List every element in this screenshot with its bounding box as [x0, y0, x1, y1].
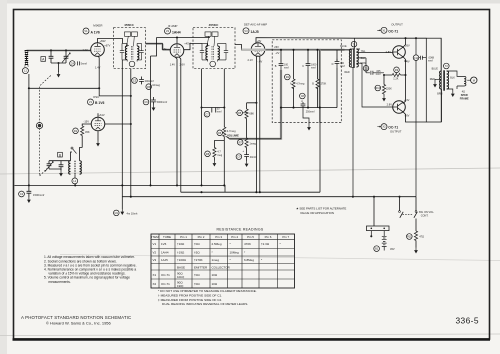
wire V3 plate to driver	[265, 49, 351, 51]
AVC line through box	[265, 49, 351, 51]
osc padder capacitor	[59, 161, 64, 170]
wire IFT2 to V3	[235, 45, 251, 50]
branch wires	[229, 50, 337, 139]
svg-text:10Ω: 10Ω	[212, 273, 218, 277]
wire osc injection	[29, 87, 99, 89]
svg-text:V3: V3	[244, 29, 248, 33]
svg-text:2.8V: 2.8V	[386, 50, 392, 54]
svg-text:1V6: 1V6	[161, 242, 167, 246]
wire osc to coil	[71, 148, 83, 161]
osc voltage labels	[84, 113, 105, 124]
bypass capacitor 200mmf	[132, 78, 138, 84]
svg-text:D: D	[332, 63, 334, 66]
svg-text:+.4V: +.4V	[404, 98, 410, 102]
wire osc plate to feedback line	[105, 123, 131, 125]
battery cells 45V	[382, 236, 387, 250]
svg-text:X1: X1	[153, 273, 157, 277]
svg-text:455KC: 455KC	[209, 23, 219, 27]
IF amp tube V2	[170, 44, 184, 58]
wire V2 plate to IFT2	[184, 44, 202, 50]
tube designator V1B	[88, 99, 94, 105]
svg-text:V1: V1	[84, 29, 88, 33]
svg-text:5000mmf: 5000mmf	[157, 101, 168, 104]
svg-text:26V: 26V	[274, 45, 279, 49]
resistor R6 4.7meg volume tap	[217, 130, 223, 136]
electrolytic C2 1500mmf	[19, 191, 25, 197]
shaded signal wire grid line	[27, 44, 171, 51]
B+ screen line	[151, 38, 211, 57]
svg-text:DET-AVC-AF AMP: DET-AVC-AF AMP	[244, 23, 267, 27]
svg-text:CONT.: CONT.	[421, 215, 429, 218]
meter jack M1	[114, 210, 120, 216]
svg-text:†19Ω: †19Ω	[177, 250, 185, 254]
svg-text:GRN: GRN	[360, 62, 366, 65]
GRN wire to X2 base	[362, 63, 393, 107]
svg-text:COLLECTOR: COLLECTOR	[212, 265, 231, 269]
svg-text:EMITTER: EMITTER	[194, 265, 208, 269]
svg-text:A PHOTOFACT STANDARD NOTATI: A PHOTOFACT STANDARD NOTATION SCHEMATIC	[21, 315, 131, 320]
svg-text:1meg: 1meg	[249, 142, 256, 146]
svg-text:5mmf: 5mmf	[81, 63, 88, 66]
svg-text:BRN: BRN	[437, 92, 442, 95]
svg-text:1AH4: 1AH4	[172, 30, 181, 34]
table row X1 OC-71	[153, 271, 218, 279]
svg-text:FRAME: FRAME	[460, 97, 469, 100]
wire box to rail	[319, 108, 321, 193]
svg-text:1meg: 1meg	[212, 258, 220, 262]
svg-text:68K: 68K	[249, 112, 254, 116]
battery feed	[373, 197, 375, 226]
svg-text:-2V: -2V	[275, 51, 279, 55]
table row V2 1AH4	[153, 250, 247, 254]
capacitor C7 50mmf	[204, 111, 210, 117]
X2 voltage labels	[387, 98, 410, 117]
table footnotes	[158, 289, 257, 306]
junction dots	[50, 49, 67, 64]
wire tuning caps	[49, 161, 71, 171]
filament wire V2 b	[179, 57, 181, 192]
osc transformer L2	[69, 161, 71, 175]
svg-text:1AJ5: 1AJ5	[161, 258, 168, 262]
svg-text:OC-71: OC-71	[161, 282, 170, 286]
table header row	[151, 235, 289, 239]
svg-text:V1: V1	[89, 100, 93, 104]
battery pack B1	[367, 226, 390, 231]
transistor X2	[393, 101, 406, 114]
svg-text:V1: V1	[153, 242, 157, 246]
svg-text:+61V: +61V	[99, 113, 105, 117]
wire volume lower	[246, 148, 248, 153]
capacitor A 250mmf	[300, 93, 306, 99]
svg-text:† MEASURED FROM POSITIVE SIDE: † MEASURED FROM POSITIVE SIDE OF C1.	[158, 293, 222, 297]
filament wire V2	[175, 57, 177, 186]
svg-text:40mfd: 40mfd	[250, 156, 258, 159]
wire antenna return to B minus rail	[28, 74, 30, 185]
driver transformer	[351, 38, 354, 67]
output transformer	[440, 71, 442, 89]
svg-text:‡ MEASURED FROM POSITIVE SIDE: ‡ MEASURED FROM POSITIVE SIDE OF C2.	[158, 298, 222, 302]
mixer tube V1A	[91, 43, 105, 57]
svg-text:-15V: -15V	[84, 120, 90, 124]
wire mixer cathode down	[98, 56, 131, 96]
trimmer capacitor C1A	[64, 50, 69, 63]
svg-text:V2: V2	[166, 29, 170, 33]
bypass capacitor 5000mmf	[143, 99, 149, 105]
svg-text:V2: V2	[153, 250, 157, 254]
boxed ref B	[58, 152, 63, 157]
svg-text:1.2K: 1.2K	[393, 77, 398, 80]
svg-text:470K: 470K	[244, 242, 251, 246]
volume control R7 1meg	[237, 140, 243, 146]
svg-text:†0Ω: †0Ω	[194, 273, 200, 277]
wire det cap row	[202, 107, 225, 109]
svg-text:mmf: mmf	[428, 59, 433, 62]
svg-text:6.8Meg: 6.8Meg	[244, 258, 254, 262]
svg-text:455KC: 455KC	[124, 23, 134, 27]
svg-text:BLUE: BLUE	[340, 45, 347, 48]
B minus rail 4	[122, 196, 416, 198]
capacitor C4 5mmf	[70, 61, 75, 66]
resistor R5 68K	[237, 110, 243, 116]
detector line vertical	[223, 69, 225, 127]
svg-text:Pin 2: Pin 2	[198, 235, 205, 239]
svg-text:45V: 45V	[390, 247, 395, 251]
svg-text:X2: X2	[382, 125, 386, 129]
osc cathode ground	[97, 131, 99, 140]
svg-text:★ SEE PARTS LIST FOR ALTERNATE: ★ SEE PARTS LIST FOR ALTERNATE	[296, 207, 346, 211]
svg-text:OUTPUT: OUTPUT	[390, 130, 402, 134]
IF transformer T2	[193, 28, 235, 69]
svg-text:4.7meg: 4.7meg	[296, 83, 305, 86]
svg-text:R10: R10	[376, 87, 381, 90]
svg-text:mmf: mmf	[311, 66, 316, 69]
svg-text:TUBE: TUBE	[163, 235, 171, 239]
svg-text:B 1V6: B 1V6	[95, 101, 105, 105]
output stage enclosure	[426, 38, 441, 122]
svg-text:Pin 7: Pin 7	[282, 235, 289, 239]
gang marker M	[36, 123, 42, 129]
wire cap bottoms	[51, 63, 66, 72]
coupling dashed box	[272, 40, 341, 123]
svg-text:Pin 6: Pin 6	[265, 235, 272, 239]
svg-text:2.5Meg: 2.5Meg	[212, 242, 222, 246]
table row V3 1AJ5	[153, 258, 264, 262]
output label X2	[377, 126, 380, 127]
svg-text:RED: RED	[345, 71, 350, 74]
svg-text:Pin 1: Pin 1	[180, 235, 187, 239]
svg-text:2.1V: 2.1V	[248, 58, 254, 62]
shaded AF grid path	[229, 50, 319, 139]
AVC resistor 10meg	[146, 84, 152, 90]
svg-text:†0Ω: †0Ω	[194, 282, 200, 286]
svg-text:1AH4: 1AH4	[161, 250, 169, 254]
numbered notes list	[44, 255, 137, 284]
svg-text:C: C	[302, 65, 304, 68]
svg-text:MIXER: MIXER	[93, 23, 102, 27]
svg-text:BLK: BLK	[450, 77, 455, 80]
resistor R10 220K	[375, 85, 381, 91]
svg-text:meg: meg	[217, 154, 222, 157]
resistance readings table grid	[151, 234, 295, 288]
driver transformer wire labels	[340, 45, 366, 74]
svg-text:†100Ω: †100Ω	[177, 258, 187, 262]
svg-text:†10Ω: †10Ω	[177, 242, 185, 246]
antenna loop coil L1	[25, 51, 28, 65]
svg-text:RED: RED	[430, 78, 435, 81]
svg-text:Pin 3: Pin 3	[215, 235, 222, 239]
resistor R9 1.2K	[394, 67, 400, 73]
svg-text:250mmf: 250mmf	[306, 111, 315, 114]
svg-text:© Howard W. Sams & Co., Inc. 1: © Howard W. Sams & Co., Inc. 1956	[46, 320, 112, 325]
svg-text:4m 10mh: 4m 10mh	[127, 212, 138, 216]
svg-text:SW. ON VOL.: SW. ON VOL.	[419, 211, 435, 214]
V3 voltage labels	[241, 39, 279, 63]
osc plate stub	[97, 113, 99, 117]
svg-text:†270K: †270K	[194, 258, 203, 262]
B minus rail 1	[15, 185, 226, 192]
driver transformer designator T1	[351, 41, 357, 47]
tube designator V2	[165, 28, 171, 34]
svg-text:10Ω‡: 10Ω‡	[177, 275, 185, 279]
secondary to speaker	[447, 71, 464, 91]
output transformer designator T2	[444, 63, 450, 69]
svg-text:10Ω: 10Ω	[212, 282, 218, 286]
output transformer labels	[430, 68, 455, 96]
svg-text:1500mmf: 1500mmf	[33, 193, 44, 197]
collector supply line	[256, 38, 426, 44]
svg-text:A 1V6: A 1V6	[91, 30, 100, 34]
svg-text:mmf: mmf	[376, 73, 381, 76]
speaker designator	[471, 77, 477, 83]
svg-text:C11: C11	[414, 57, 419, 60]
svg-text:X2: X2	[153, 282, 157, 286]
X1 collector to supply	[403, 38, 406, 47]
ground under osc caps	[59, 171, 63, 177]
svg-text:10Meg: 10Meg	[230, 250, 240, 254]
osc coil designator	[72, 178, 78, 184]
gang tuning dashed link	[40, 76, 51, 177]
svg-text:270K: 270K	[321, 83, 327, 86]
det tube V3	[251, 43, 265, 57]
on off switch	[400, 197, 417, 211]
boxed ref A	[41, 57, 46, 62]
svg-text:BLUE: BLUE	[432, 68, 439, 71]
svg-text:OC-71: OC-71	[161, 273, 170, 277]
svg-text:C2: C2	[20, 192, 24, 196]
shaded AF plate wire	[242, 49, 345, 51]
ground below box	[307, 125, 311, 131]
wire IFT1 to V2 grid	[146, 44, 171, 50]
svg-text:M1: M1	[115, 212, 119, 215]
svg-text:Pin 4: Pin 4	[231, 235, 238, 239]
svg-text:190‡: 190‡	[177, 284, 184, 288]
speaker label	[460, 90, 469, 100]
speaker voice coil	[464, 76, 466, 86]
table row X2 OC-71	[153, 280, 218, 288]
svg-text:mmf: mmf	[340, 65, 345, 68]
capacitor C10 .005mmf	[363, 66, 369, 72]
svg-text:†5Ω: †5Ω	[194, 250, 200, 254]
X1 emitter bus	[403, 56, 406, 103]
resistor R11 47 ohm	[415, 219, 417, 232]
svg-text:DUAL READING INDICATES REVERSA: DUAL READING INDICATES REVERSAL OF METER…	[162, 302, 248, 306]
svg-text:2.6V: 2.6V	[180, 62, 186, 66]
driver transformer leads	[351, 49, 393, 197]
see parts list note	[296, 207, 346, 216]
svg-text:VALUE OR APPLICATION: VALUE OR APPLICATION	[300, 211, 334, 215]
X1 voltage labels	[386, 44, 410, 64]
svg-text:+9V: +9V	[257, 39, 262, 43]
svg-text:R11: R11	[407, 236, 412, 239]
osc tuning capacitor C1B	[47, 161, 52, 169]
svg-text:mmf: mmf	[217, 111, 222, 114]
svg-text:†2.3Ω: †2.3Ω	[261, 242, 270, 246]
svg-text:2.8V: 2.8V	[387, 103, 393, 107]
svg-text:1.4V: 1.4V	[170, 62, 176, 66]
svg-text:mmf: mmf	[284, 66, 289, 69]
capacitor C11 .0068mmf	[413, 55, 419, 61]
svg-text:BASE: BASE	[177, 265, 185, 269]
V3 cathode wires down	[256, 56, 259, 192]
X2 emitter down	[403, 111, 427, 122]
tube designator V1	[83, 28, 89, 34]
svg-text:YEL: YEL	[361, 50, 366, 53]
osc coil switch point	[71, 147, 73, 149]
svg-text:Pin 5: Pin 5	[247, 235, 254, 239]
svg-text:RESISTANCE READINGS: RESISTANCE READINGS	[216, 228, 263, 232]
svg-text:VOLUME: VOLUME	[227, 133, 239, 137]
svg-text:+67V: +67V	[104, 43, 110, 47]
svg-text:OC-71: OC-71	[388, 29, 398, 33]
resistor A 4.7meg	[285, 74, 291, 80]
svg-text:10meg: 10meg	[152, 84, 160, 87]
svg-text:OUTPUT: OUTPUT	[391, 23, 403, 27]
V2 voltage labels	[163, 41, 191, 66]
tube designator V3	[243, 28, 249, 34]
electrolytic C9 40mfd	[236, 154, 242, 160]
svg-text:IF AMP: IF AMP	[168, 24, 178, 28]
mixer voltage labels	[82, 39, 111, 70]
svg-text:ITEM: ITEM	[151, 235, 159, 239]
svg-text:45K: 45K	[85, 130, 90, 134]
wire antenna to mixer grid	[27, 49, 92, 51]
svg-text:†0Ω: †0Ω	[194, 242, 200, 246]
svg-text:V3: V3	[153, 258, 157, 262]
svg-text:1.4V: 1.4V	[95, 65, 101, 69]
resistor R8 4.7meg	[205, 151, 211, 157]
scan fold lines	[0, 168, 500, 174]
svg-text:2V: 2V	[163, 47, 166, 51]
svg-text:M: M	[473, 78, 475, 82]
wire det out	[201, 69, 203, 186]
svg-text:1AJ5: 1AJ5	[251, 30, 259, 34]
AVC line vertical	[150, 56, 152, 185]
capacitor C3	[49, 50, 54, 63]
B minus rail 2	[181, 191, 320, 193]
inner bottom bus	[281, 107, 337, 109]
svg-text:336-5: 336-5	[456, 316, 479, 326]
ground	[57, 72, 61, 78]
osc tube V1B	[91, 117, 105, 131]
svg-text:OSC: OSC	[93, 95, 99, 99]
vertical feedback wire	[130, 69, 132, 197]
svg-text:200mmf: 200mmf	[145, 80, 154, 83]
IF transformer T1	[114, 28, 146, 69]
svg-text:-4.7V: -4.7V	[82, 48, 88, 52]
svg-text:+69V: +69V	[100, 39, 106, 43]
table row V1 1V6	[153, 242, 282, 246]
antenna coil designator	[22, 68, 28, 74]
transistor X1	[393, 46, 406, 59]
svg-text:* DO NOT USE OHMMETER TO MEAS: * DO NOT USE OHMMETER TO MEASURE FILAMEN…	[158, 289, 257, 293]
svg-text:220K: 220K	[386, 87, 392, 90]
osc grid resistor R2 45K	[73, 128, 79, 134]
table subheader base emitter collector	[177, 265, 231, 269]
wire mixer plate to IFT1	[98, 39, 123, 44]
svg-text:47Ω: 47Ω	[419, 235, 424, 239]
svg-text:measurements.: measurements.	[48, 280, 70, 284]
svg-text:BLK: BLK	[361, 57, 366, 60]
svg-text:X1: X1	[382, 28, 386, 32]
wire IFT1 secondary return	[121, 60, 123, 185]
